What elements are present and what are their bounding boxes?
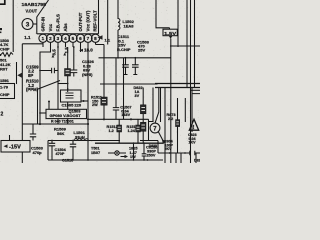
- top right rail E: [194, 0, 196, 88]
- arrow marker: [121, 156, 126, 158]
- capacitor C1505 box: [67, 88, 69, 90]
- svg-text:Vcc (OUT): Vcc (OUT): [86, 10, 91, 31]
- right bottom bus y153: [158, 152, 200, 154]
- bus y140.5: [48, 140, 120, 142]
- wire node7 top: [155, 88, 159, 124]
- svg-text:!: !: [193, 125, 195, 131]
- svg-text:3V: 3V: [135, 94, 140, 98]
- scan noise: [0, 0, 199, 162]
- svg-text:R 040 T15001: R 040 T15001: [51, 120, 74, 124]
- capacitor C1516 symbol: [70, 141, 76, 161]
- left bus y124: [22, 123, 88, 125]
- svg-text:R0T: R0T: [0, 67, 8, 72]
- svg-text:7: 7: [87, 36, 90, 41]
- wire pin1 to left rail: [22, 42, 43, 44]
- resistor R1512 striped body: [118, 119, 120, 125]
- wire node2 down: [37, 89, 39, 124]
- svg-text:(PPM): (PPM): [26, 87, 39, 92]
- wire x123.5: [123, 58, 125, 120]
- diode D822 striped body upper: [142, 88, 144, 105]
- svg-text:25V: 25V: [138, 48, 145, 53]
- IC pin 1: [39, 34, 47, 42]
- svg-text:GRY-IN: GRY-IN: [41, 17, 46, 32]
- svg-text:18.0: 18.0: [84, 47, 93, 52]
- diode arrow on left rail: [17, 73, 22, 79]
- svg-text:2: 2: [1, 112, 4, 118]
- IC pin 6: [76, 34, 84, 42]
- svg-text:1.1: 1.1: [24, 35, 31, 40]
- capacitor C1503 symbol: [30, 124, 36, 141]
- right buses y83.5 y87.5: [155, 84, 200, 88]
- top right rail B: [177, 0, 179, 47]
- capacitor C1504 symbol: [49, 141, 55, 161]
- wire x13 top: [12, 0, 14, 52]
- component X1501 dark block: [67, 47, 69, 69]
- transistor Q1503 box: [46, 109, 87, 118]
- svg-text:C1505 220: C1505 220: [62, 103, 82, 108]
- IC pin 7: [84, 34, 92, 42]
- svg-text:6: 6: [79, 36, 82, 41]
- capacitor C8151 symbol: [142, 143, 147, 160]
- junction dot at x40 cap: [39, 70, 41, 72]
- svg-text:2W: 2W: [92, 103, 98, 107]
- left edge marks: [0, 28, 2, 30]
- scan streaks: [48, 0, 51, 163]
- wire x48: [47, 141, 49, 161]
- IC pin 5: [69, 34, 77, 42]
- wire x40 to Q1503 box: [40, 112, 46, 114]
- svg-text:R.CHIP: R.CHIP: [117, 47, 131, 52]
- voltage label 18.0 with arrow: [79, 49, 83, 52]
- warning triangle: [189, 119, 198, 130]
- svg-text:4: 4: [64, 36, 67, 41]
- capacitor C1526 symbol: [70, 47, 77, 77]
- top right rail D: [190, 0, 192, 163]
- wire pin8 to right: [96, 45, 105, 98]
- svg-text:470P: 470P: [56, 152, 65, 156]
- inductor L1502 coil: [118, 19, 120, 30]
- junction dot left of Q1503: [48, 101, 50, 103]
- svg-text:1B07: 1B07: [91, 151, 100, 155]
- corner mark: [0, 0, 5, 4]
- resistor R1513 striped body: [137, 119, 139, 125]
- svg-text:D830: D830: [149, 144, 157, 148]
- svg-text:1: 1: [42, 36, 45, 41]
- svg-text:1KV: 1KV: [189, 141, 197, 145]
- svg-text:1.5V: 1.5V: [164, 31, 177, 37]
- svg-text:250V: 250V: [147, 154, 156, 158]
- pin stubs: [43, 42, 96, 52]
- svg-text:3: 3: [26, 22, 30, 29]
- wire x107.7 from top: [107, 0, 109, 45]
- svg-text:1.2: 1.2: [109, 129, 114, 133]
- svg-text:V.OUT: V.OUT: [26, 8, 38, 13]
- IC U1501 body outline: [37, 0, 99, 34]
- junction dots on bus y58: [103, 57, 105, 59]
- junction dot pin3: [57, 46, 59, 48]
- bold bus y143.2: [95, 142, 163, 144]
- svg-text:2: 2: [49, 36, 52, 41]
- svg-text:6.5: 6.5: [51, 49, 56, 56]
- junction dot right of C1505: [83, 100, 85, 102]
- svg-text:16AB1795: 16AB1795: [22, 2, 47, 8]
- svg-text:1.24: 1.24: [128, 129, 136, 133]
- lamp symbol: [108, 152, 126, 154]
- wire node7 bottom leader: [158, 132, 163, 142]
- series capacitor C1509 symbol: [40, 68, 58, 73]
- svg-text:D82: D82: [194, 159, 200, 163]
- resistor R873 striped body: [177, 98, 179, 120]
- diode striped body lower: [140, 122, 146, 131]
- wire pin3 down: [57, 47, 59, 109]
- IC pin 3: [54, 34, 62, 42]
- wire circle3 to IC edge: [33, 23, 37, 25]
- svg-text:CHIP: CHIP: [0, 92, 10, 97]
- wire below -15V box: [21, 152, 23, 163]
- svg-text:REF-VOLT: REF-VOLT: [93, 10, 98, 32]
- node 7 circle: [150, 123, 160, 133]
- svg-text:Abs: Abs: [63, 23, 68, 32]
- wire x133.5: [133, 143, 135, 160]
- bus y58: [99, 57, 172, 59]
- svg-text:8: 8: [94, 36, 97, 41]
- box corner near node7: [140, 119, 158, 153]
- left rail wire: [21, 44, 23, 141]
- svg-text:-15V: -15V: [9, 145, 21, 151]
- wire x104 lower: [103, 105, 105, 119]
- svg-text:GP080 V.BOOST: GP080 V.BOOST: [50, 113, 82, 118]
- -15V output box: [1, 141, 30, 153]
- bus y47 right: [171, 45, 200, 47]
- svg-text:1EA8: 1EA8: [124, 24, 135, 29]
- svg-text:5: 5: [72, 36, 75, 41]
- svg-text:F.B.-PLS: F.B.-PLS: [56, 14, 61, 32]
- capacitor C1508 symbol: [132, 58, 139, 75]
- scan grain2: [0, 0, 199, 162]
- IC pin 4: [61, 34, 69, 42]
- svg-text:T501: T501: [91, 147, 100, 151]
- scan grain: [1, 0, 200, 163]
- svg-text:470p: 470p: [33, 150, 43, 155]
- top right rail C: [186, 0, 188, 88]
- top right rail A: [156, 0, 170, 29]
- svg-text:163V: 163V: [121, 113, 130, 117]
- svg-text:56K: 56K: [57, 131, 64, 136]
- bottom right verticals: [175, 153, 177, 163]
- wire x114.5: [115, 58, 117, 108]
- svg-text:CHIP: CHIP: [0, 46, 10, 51]
- wire x16.5: [16, 62, 18, 84]
- node 3 circle: [22, 19, 33, 30]
- IC pin 2: [46, 34, 54, 42]
- inductor L1501 coil on bus: [74, 139, 88, 141]
- svg-text:1-79: 1-79: [0, 85, 9, 90]
- junction dot pin5: [73, 46, 75, 48]
- wire pin7 long down: [87, 47, 89, 160]
- mid bus y119.3: [88, 118, 149, 120]
- svg-text:3: 3: [57, 36, 60, 41]
- 1.5V box: [163, 29, 177, 36]
- stubs below Q1503: [58, 119, 68, 124]
- leader diagonal to node 2: [38, 81, 60, 90]
- svg-text:1.5: 1.5: [64, 47, 69, 54]
- svg-text:OUT-PUT: OUT-PUT: [78, 12, 83, 31]
- IC pin 8: [91, 34, 99, 42]
- voltage label 1 1 near pin 8: [98, 35, 103, 39]
- capacitor C1511 symbol: [122, 58, 129, 75]
- svg-text:1591: 1591: [0, 78, 10, 83]
- IC right area: wire with coil from top: [117, 0, 119, 19]
- bottom bus y160: [48, 159, 163, 161]
- short bus y83.5 left: [58, 83, 68, 85]
- resistor R1511 dark body: [101, 97, 107, 105]
- wire pin2 bend to x40: [40, 47, 51, 124]
- right mid verticals: [149, 88, 154, 122]
- svg-text:8P: 8P: [28, 73, 33, 78]
- resistor R1501 zigzag: [1, 53, 13, 57]
- svg-text:Vcc: Vcc: [48, 23, 53, 31]
- resistor R1591 label box: [0, 84, 15, 99]
